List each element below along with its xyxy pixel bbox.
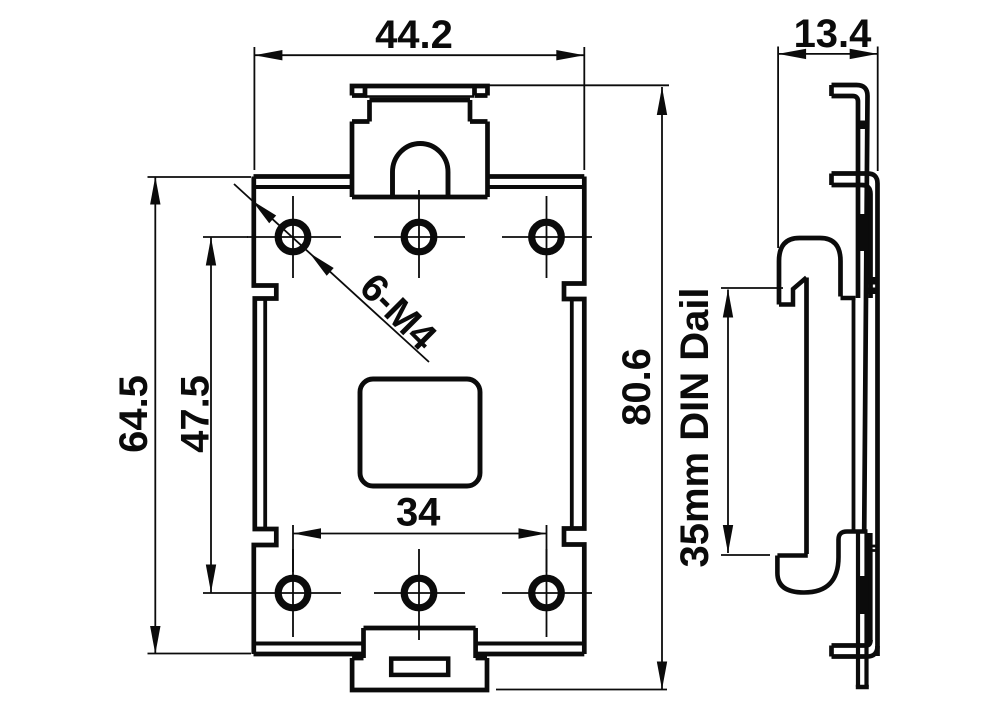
dim 47.5 top ext [203, 236, 248, 238]
top hook outer [832, 85, 868, 533]
dome right connect [841, 296, 856, 301]
dim 34 ext lines [293, 525, 547, 572]
bottom tab [364, 628, 476, 658]
second tab left cap [829, 174, 834, 186]
body top edge outer [254, 174, 585, 179]
center square rounded [360, 379, 480, 486]
long clip vertical [804, 278, 809, 555]
dim 44.2 ext lines [254, 47, 584, 170]
body bottom edge outer [254, 652, 585, 657]
body outline right edge with notches [564, 177, 584, 655]
top hook inner [832, 96, 859, 298]
bottom hook inner [832, 640, 871, 646]
back flange ticks [868, 277, 879, 285]
dim 64.5 ext lines [148, 177, 252, 654]
body outline left edge with notches [254, 177, 276, 655]
svg-text:64.5: 64.5 [112, 375, 156, 453]
hole A2 top-middle [404, 222, 434, 252]
6-M4 leader arrow 2 [310, 253, 334, 276]
34 arrows [293, 528, 321, 538]
notch bottom [779, 278, 807, 305]
leader line 6-M4 [234, 184, 429, 362]
hole B1 bottom-left [278, 578, 308, 608]
clip lower arm [858, 532, 867, 688]
svg-text:47.5: 47.5 [174, 375, 218, 453]
second tab bottom edge bending [832, 185, 871, 298]
hole B3 bottom-right [532, 578, 562, 608]
bottom tab wide part [352, 658, 487, 690]
top tab dome arch [393, 144, 449, 198]
clip dome [779, 238, 841, 305]
top tab thin line [365, 95, 474, 98]
clip plate joint blob upper [856, 214, 866, 251]
hook tail bend blob [856, 121, 870, 130]
right bend line [570, 299, 574, 529]
svg-text:13.4: 13.4 [794, 12, 873, 56]
dim 35mm ext lines [721, 288, 783, 555]
bottom tab slot [391, 659, 448, 675]
top hook left cap [829, 85, 834, 96]
svg-text:35mm DIN Dail: 35mm DIN Dail [673, 287, 717, 567]
back flange inner lower segment [868, 533, 872, 641]
svg-text:44.2: 44.2 [375, 13, 453, 57]
body top edge inner line [256, 185, 583, 189]
dim 13.4 line [778, 53, 878, 55]
dim 47.5 line [210, 238, 212, 593]
bottom hook outer [832, 646, 878, 657]
top tab plate [352, 86, 488, 96]
44.2 arrows [254, 50, 282, 60]
dim 64.5 line [154, 177, 156, 655]
bottom tab step [352, 656, 487, 661]
second tab top edge bending to back flange [832, 174, 878, 657]
dim 80.6 line [661, 87, 663, 690]
dim 34 line [293, 533, 547, 535]
svg-text:34: 34 [396, 491, 441, 535]
plate line below dome connect [852, 298, 856, 530]
body bottom edge inner line [256, 642, 583, 646]
dim 13.4 ext lines [778, 47, 878, 249]
lower arm joint blob [856, 576, 867, 614]
bottom hook left cap [829, 646, 834, 657]
top tab wide block [352, 122, 488, 198]
dim 44.2 line [254, 54, 584, 56]
13.4 arrows [778, 49, 806, 59]
dim 35mm line [727, 290, 729, 554]
hole A3 top-right [532, 222, 562, 252]
80.6 arrows [657, 87, 667, 115]
svg-text:80.6: 80.6 [615, 348, 659, 426]
J hook cap [777, 553, 807, 558]
64.5 arrows [150, 177, 160, 205]
hole B2 bottom-middle [404, 578, 434, 608]
hole A1 top-left [278, 222, 308, 252]
top tab step [352, 119, 488, 124]
dim 80.6 ext lines [489, 85, 669, 689]
hole center lines [203, 190, 592, 640]
top tab neck [370, 100, 471, 122]
left bend line [263, 299, 267, 530]
back flange double ticks [869, 546, 880, 551]
35mm arrows [723, 290, 733, 318]
lower arm bottom cap [856, 685, 869, 690]
top tab ears [352, 86, 488, 96]
J hook curve [777, 532, 867, 593]
47.5 arrows [206, 238, 216, 266]
6-M4 leader arrow 1 [252, 201, 276, 224]
